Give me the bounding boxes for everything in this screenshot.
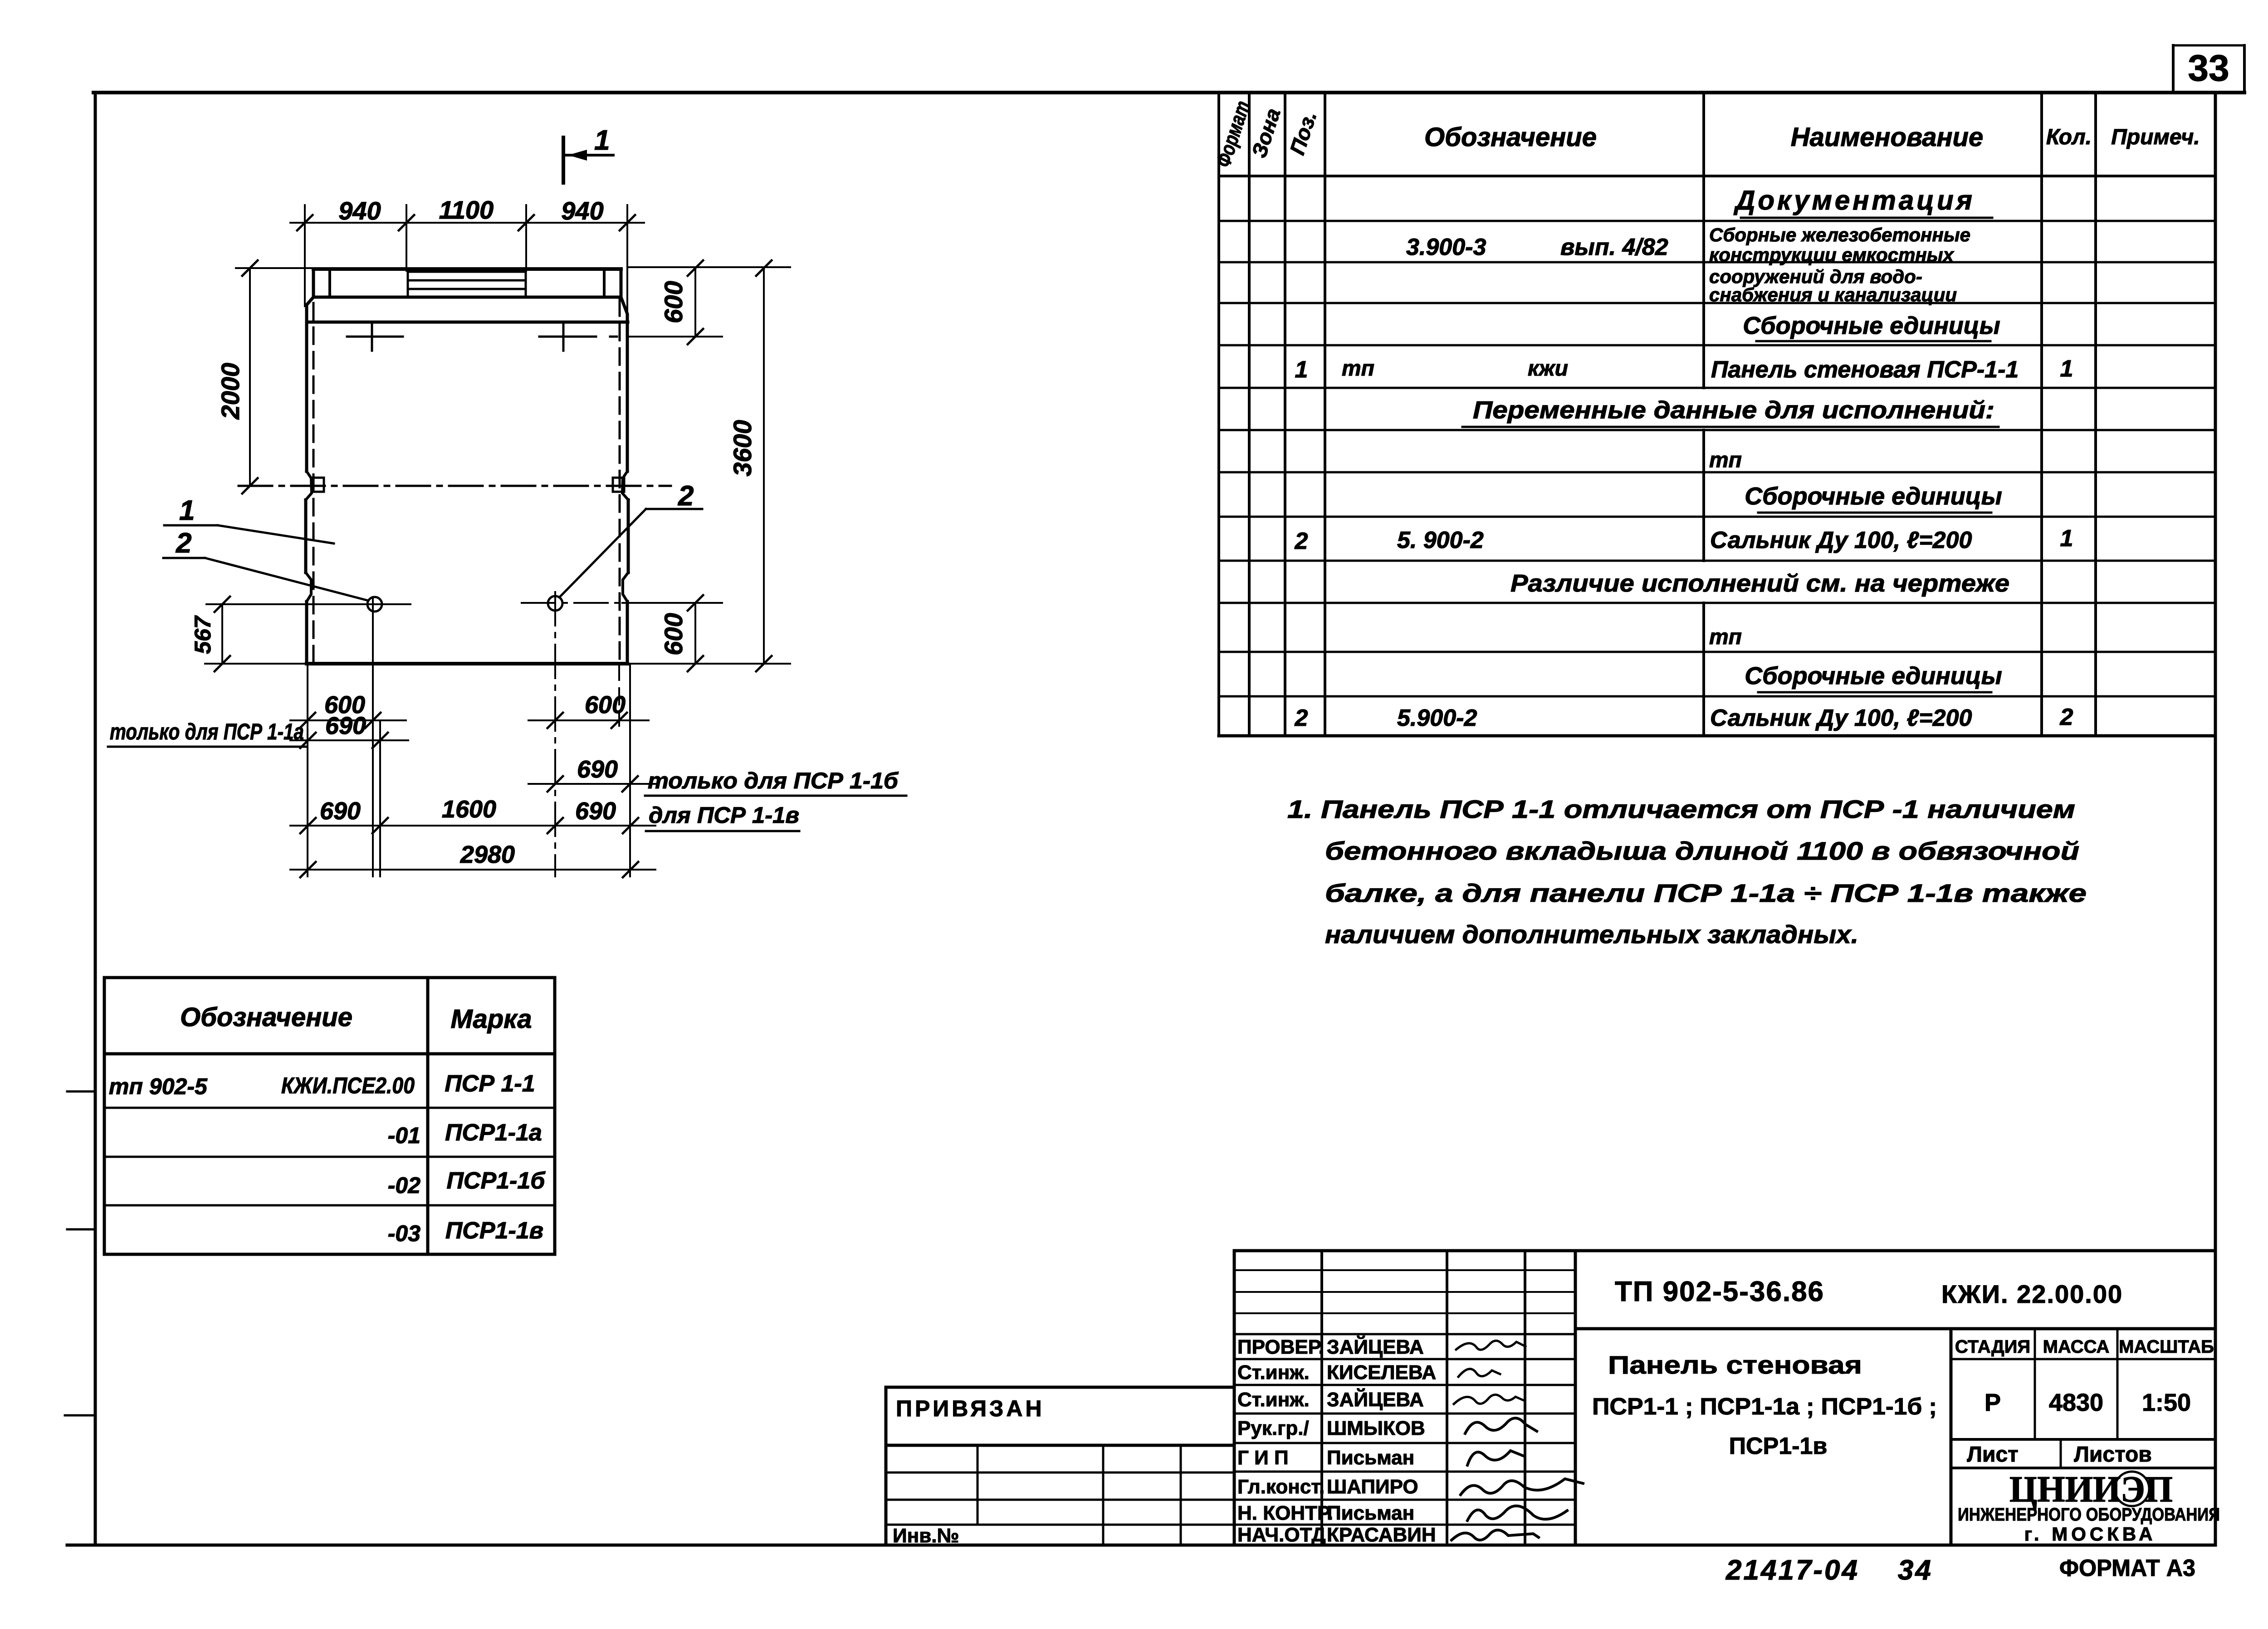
panel right outline mid — [627, 500, 630, 572]
svg-text:Сборочные единицы: Сборочные единицы — [1745, 662, 2002, 690]
panel right jog — [623, 572, 628, 602]
spec table row line 7 — [1219, 471, 2215, 474]
svg-text:вып. 4/82: вып. 4/82 — [1560, 234, 1668, 260]
signature squiggle 1 — [1456, 1340, 1525, 1350]
ext vertical right circle centerline — [554, 592, 556, 876]
svg-text:Сборочные единицы: Сборочные единицы — [1743, 312, 2000, 339]
circle axis left solid part — [206, 603, 411, 605]
svg-text:Инв.№: Инв.№ — [893, 1525, 959, 1547]
panel top edge — [313, 267, 621, 271]
section mark vertical — [562, 137, 565, 183]
svg-text:5.900-2: 5.900-2 — [1397, 705, 1477, 731]
spec table header bottom line — [1219, 175, 2215, 177]
spec row Dokumentacija underline — [1741, 217, 1992, 219]
dim 3600 ext bottom — [630, 663, 790, 665]
svg-text:Документация: Документация — [1733, 185, 1975, 215]
titleblock sig row 7 — [1234, 1499, 1575, 1501]
svg-text:Н. КОНТР.: Н. КОНТР. — [1237, 1502, 1333, 1524]
panel left outline mid — [304, 500, 308, 572]
panel horizontal centerline (dash-dot) — [239, 485, 671, 487]
svg-text:тп: тп — [1709, 625, 1742, 649]
titleblock v-line title area — [1574, 1251, 1577, 1545]
dim 600 lowerright vertical — [694, 603, 696, 664]
svg-text:балке, а для панели ПСР 1-1: балке, а для панели ПСР 1-1а ÷ ПСР 1-1в … — [1325, 879, 2087, 907]
svg-text:кжи: кжи — [1528, 357, 1568, 381]
dim 3600 vertical — [763, 268, 765, 664]
dim 600 top tick upper — [688, 260, 703, 276]
privyazan grid col 3 — [1180, 1445, 1182, 1545]
titleblock small row 3 — [1234, 1312, 1575, 1314]
page frame left border — [94, 93, 97, 1545]
dim 2000 ext top — [236, 267, 312, 269]
privyazan grid row 4 — [886, 1524, 1234, 1526]
titleblock small row 2 — [1234, 1291, 1575, 1293]
svg-text:ПСР1-1в: ПСР1-1в — [445, 1218, 543, 1244]
panel beam bottom line — [307, 321, 628, 324]
dim row5 line — [290, 869, 655, 871]
svg-text:690: 690 — [577, 756, 618, 783]
titleblock doc number row bottom — [1575, 1327, 2215, 1331]
panel left jog — [306, 572, 311, 602]
dim 567 ext bottom — [205, 663, 307, 665]
svg-text:1: 1 — [179, 495, 195, 526]
svg-text:тп: тп — [1342, 357, 1374, 381]
privyazan row bottom — [886, 1444, 1234, 1447]
titleblock stadia header bottom — [1951, 1358, 2215, 1360]
svg-text:Поз.: Поз. — [1285, 108, 1321, 158]
row5 tick b — [623, 862, 638, 877]
gland hole circle right — [548, 596, 562, 611]
marks table row line 3 — [104, 1204, 555, 1207]
concrete insert lamination line 3 — [408, 288, 526, 290]
row4 tick b — [372, 818, 388, 833]
spec table row line 4 — [1219, 344, 2215, 347]
row3 label underline — [645, 795, 906, 797]
svg-text:ПСР1-1а: ПСР1-1а — [445, 1120, 542, 1146]
svg-text:ПРОВЕР.: ПРОВЕР. — [1237, 1336, 1324, 1358]
svg-text:1. Панель ПСР 1-1 отличаетс: 1. Панель ПСР 1-1 отличается от ПСР -1 н… — [1287, 795, 2075, 823]
ext vertical right inner dashed below — [618, 664, 620, 726]
svg-text:1100: 1100 — [439, 196, 494, 224]
signature squiggle 6 — [1461, 1479, 1583, 1495]
signature squiggle 5 — [1467, 1451, 1524, 1465]
panel end block left vertical — [328, 269, 331, 297]
spec table bottom line — [1219, 734, 2215, 738]
titleblock v-line stadia/massa — [2034, 1329, 2036, 1439]
logo circle around E — [2115, 1472, 2149, 1506]
svg-text:ПСР 1-1: ПСР 1-1 — [445, 1071, 535, 1097]
dim 600 top ext lower — [628, 336, 722, 338]
svg-text:-03: -03 — [388, 1221, 420, 1246]
svg-text:МАССА: МАССА — [2043, 1337, 2110, 1357]
titleblock sig row 6 — [1234, 1471, 1575, 1473]
privyazan grid row 2 — [886, 1472, 1234, 1474]
dim 600 lowerright tick top — [688, 595, 703, 611]
ext vertical left edge below — [307, 664, 308, 876]
svg-text:Зона: Зона — [1247, 105, 1285, 161]
circle axis right dashdot — [522, 602, 619, 604]
dim 600 top tick lower — [688, 329, 703, 344]
svg-text:2980: 2980 — [460, 841, 515, 868]
svg-text:Р: Р — [1984, 1389, 2001, 1416]
svg-text:Письман: Письман — [1327, 1502, 1414, 1524]
page number box left line — [2172, 45, 2175, 93]
page frame bottom border — [67, 1544, 2215, 1547]
panel bottom edge — [307, 662, 627, 665]
spec row sborochnye edinicy 1 underline — [1756, 340, 1990, 342]
dim 567 tick bottom — [215, 656, 230, 671]
row3 tick b — [622, 776, 638, 792]
gland hole circle left — [367, 597, 382, 611]
dim 600 top vertical — [694, 268, 696, 337]
row2 tick a — [300, 733, 316, 748]
row4 label underline — [646, 830, 799, 832]
dim row1 line right — [528, 719, 649, 721]
embed square right — [613, 478, 624, 492]
titleblock top line — [1234, 1249, 2215, 1252]
signature squiggle 7 — [1467, 1506, 1567, 1521]
spec table left edge — [1217, 93, 1220, 736]
svg-text:1: 1 — [2060, 356, 2073, 382]
marks table outer box — [104, 978, 555, 1254]
top dim ext 3 — [525, 205, 527, 271]
svg-text:Листов: Листов — [2074, 1443, 2152, 1467]
titleblock sig row 5 — [1234, 1442, 1575, 1444]
spec table col line kol/primech — [2094, 93, 2097, 736]
titleblock list band bottom — [1951, 1467, 2215, 1469]
titleblock sig row 8 — [1234, 1524, 1575, 1526]
signature squiggle 8 — [1452, 1530, 1539, 1540]
callout 2 right leader — [560, 509, 646, 597]
dim row4 line — [290, 825, 655, 827]
svg-text:НАЧ.ОТД: НАЧ.ОТД — [1237, 1524, 1326, 1546]
svg-text:г. МОСКВА: г. МОСКВА — [2024, 1523, 2156, 1545]
spec table col line naimenovanie/kol — [2040, 93, 2043, 736]
lifting mark right dash — [610, 336, 617, 338]
svg-text:Панель стеновая ПСР-1-1: Панель стеновая ПСР-1-1 — [1711, 357, 2019, 383]
privyazan grid col 2 — [1102, 1445, 1105, 1545]
svg-text:3600: 3600 — [728, 420, 757, 477]
spec row sborochnye edinicy 3 underline — [1758, 691, 1991, 694]
svg-text:600: 600 — [585, 691, 626, 719]
titleblock list band top — [1951, 1438, 2215, 1441]
spec table col line oboznachenie/naimenovanie mid — [1702, 430, 1705, 561]
svg-text:КЖИ.ПСЕ2.00: КЖИ.ПСЕ2.00 — [281, 1073, 415, 1098]
svg-text:600: 600 — [659, 613, 688, 655]
panel left notch — [306, 471, 312, 500]
dim row3 line — [528, 783, 655, 785]
svg-text:только для ПСР 1-1б: только для ПСР 1-1б — [648, 768, 899, 793]
dim 3600 tick bottom — [756, 656, 772, 671]
concrete insert lamination line 2 — [408, 279, 526, 282]
dim 2000 tick bottom — [242, 478, 258, 494]
svg-text:2: 2 — [2060, 704, 2073, 730]
svg-text:33: 33 — [2188, 48, 2229, 89]
svg-text:тп 902-5: тп 902-5 — [109, 1074, 208, 1099]
fold mark tick 3 — [65, 1414, 94, 1417]
spec table row line 1 — [1219, 220, 2215, 222]
svg-text:Ст.инж.: Ст.инж. — [1237, 1361, 1310, 1384]
dim row1 line left — [290, 719, 406, 721]
row1 tick c — [547, 713, 563, 728]
dim 600 lowerright tick bottom — [688, 656, 703, 671]
svg-text:1600: 1600 — [442, 796, 496, 823]
svg-text:Переменные данные для испол: Переменные данные для исполнений: — [1473, 396, 1994, 424]
callout 2 right horizontal — [646, 508, 702, 510]
svg-text:1: 1 — [1295, 357, 1308, 383]
dim 567 tick top — [215, 597, 230, 612]
marks table row line 2 — [104, 1156, 555, 1158]
dim 600 lowerright ext bottom — [630, 663, 722, 665]
svg-text:2: 2 — [1295, 528, 1308, 554]
spec row sborochnye edinicy 2 underline — [1758, 512, 1991, 514]
svg-text:КЖИ. 22.00.00: КЖИ. 22.00.00 — [1941, 1280, 2123, 1308]
svg-text:5. 900-2: 5. 900-2 — [1397, 527, 1484, 553]
svg-text:Рук.гр./: Рук.гр./ — [1237, 1417, 1309, 1439]
titleblock left edge — [1233, 1251, 1236, 1545]
lifting mark left vertical — [371, 324, 373, 351]
svg-text:ТП 902-5-36.86: ТП 902-5-36.86 — [1615, 1276, 1824, 1307]
svg-text:Панель стеновая: Панель стеновая — [1608, 1350, 1862, 1379]
svg-text:Кол.: Кол. — [2046, 125, 2092, 149]
hidden inner face left (dashed) — [313, 303, 315, 661]
spec table col line zona/poz — [1284, 93, 1286, 736]
svg-text:Г И П: Г И П — [1237, 1447, 1289, 1469]
section mark horizontal — [563, 154, 613, 157]
svg-text:КИСЕЛЕВА: КИСЕЛЕВА — [1327, 1361, 1436, 1384]
row4 tick d — [623, 818, 638, 833]
titleblock small row 1 — [1234, 1269, 1575, 1271]
spec table row line 6 — [1219, 429, 2215, 431]
svg-text:снабжения и канализации: снабжения и канализации — [1709, 284, 1957, 305]
svg-text:-01: -01 — [388, 1123, 420, 1148]
titleblock v-line stadia area — [1950, 1329, 1953, 1545]
svg-text:600: 600 — [659, 281, 688, 323]
top dim ext 4 — [626, 205, 628, 314]
dim600 lower ext top — [622, 602, 722, 604]
svg-text:ИНЖЕНЕРНОГО ОБОРУДОВАНИЯ: ИНЖЕНЕРНОГО ОБОРУДОВАНИЯ — [1958, 1505, 2220, 1525]
ext vertical right edge below — [629, 664, 631, 876]
dim row2 line — [290, 739, 408, 741]
svg-text:Различие исполнений см. на ч: Различие исполнений см. на чертеже — [1510, 570, 2009, 597]
svg-text:690: 690 — [325, 712, 366, 739]
row2 tick b — [372, 733, 388, 748]
row1 tick a — [300, 713, 315, 728]
svg-text:Лист: Лист — [1967, 1443, 2018, 1467]
signature squiggle 2 — [1458, 1369, 1500, 1377]
svg-text:Наименование: Наименование — [1791, 122, 1983, 152]
svg-text:Сальник Ду 100, ℓ=200: Сальник Ду 100, ℓ=200 — [1710, 705, 1972, 731]
svg-text:бетонного вкладыша длиной 1: бетонного вкладыша длиной 1100 в обвязоч… — [1325, 837, 2079, 865]
panel left outline upper — [307, 269, 313, 471]
svg-text:наличием дополнительных закл: наличием дополнительных закладных. — [1325, 920, 1858, 949]
spec table row line 3 — [1219, 302, 2215, 304]
marks table column line — [426, 978, 430, 1254]
top dim tick 3 — [518, 215, 534, 230]
spec table row line 9 — [1219, 560, 2215, 562]
spec table row line 12 — [1219, 695, 2215, 698]
top dim tick 4 — [620, 215, 635, 230]
svg-text:Обозначение: Обозначение — [180, 1003, 352, 1032]
titleblock v-line massa/masshtab — [2116, 1329, 2119, 1439]
page frame top border — [93, 91, 2244, 94]
row4 tick a — [300, 818, 316, 833]
row5 tick a — [300, 862, 316, 877]
svg-text:Обозначение: Обозначение — [1424, 122, 1597, 152]
spec table col line format/zona — [1248, 93, 1251, 736]
hidden inner face right (dashed) — [619, 299, 621, 661]
row1 tick d — [611, 713, 627, 728]
top dim ext 1 — [304, 205, 306, 306]
svg-text:1: 1 — [2060, 525, 2073, 552]
spec table row line 2 — [1219, 261, 2215, 264]
panel left outline lower — [305, 602, 308, 664]
titleblock v-line date — [1524, 1251, 1526, 1545]
svg-text:Сборные железобетонные: Сборные железобетонные — [1709, 224, 1970, 245]
svg-text:2000: 2000 — [216, 363, 244, 420]
spec table col line oboznachenie/naimenovanie upper — [1702, 93, 1705, 388]
dim 2000 line — [249, 268, 251, 486]
svg-text:ШМЫКОВ: ШМЫКОВ — [1327, 1417, 1425, 1439]
page number box top line — [2173, 44, 2244, 47]
fold mark tick 2 — [67, 1228, 94, 1231]
panel right outline lower — [626, 602, 629, 664]
svg-text:Гл.конст.: Гл.конст. — [1237, 1476, 1325, 1498]
signature squiggle 4 — [1465, 1418, 1537, 1433]
svg-text:567: 567 — [190, 615, 215, 654]
row3 tick a — [547, 776, 563, 792]
top dim ext 2 — [406, 205, 407, 271]
marks table header bottom — [104, 1052, 555, 1056]
privyazan grid row 3 — [886, 1499, 1234, 1501]
svg-text:КРАСАВИН: КРАСАВИН — [1327, 1524, 1436, 1546]
titleblock v-line list/listov — [2060, 1439, 2062, 1468]
dim 2000 tick top — [242, 260, 258, 276]
panel right notch — [622, 471, 628, 500]
svg-text:ПСР1-1в: ПСР1-1в — [1729, 1433, 1828, 1459]
titleblock v-line names — [1320, 1251, 1323, 1545]
row2 label underline — [108, 746, 306, 748]
callout 1 left leader — [218, 525, 334, 543]
spec table row line 10 — [1219, 602, 2215, 604]
concrete insert left vertical — [407, 271, 409, 297]
top dim tick 2 — [399, 215, 414, 230]
svg-text:МАСШТАБ: МАСШТАБ — [2119, 1337, 2214, 1357]
dim 3600 tick top — [756, 260, 772, 276]
panel right outline upper — [621, 269, 627, 471]
svg-text:ЗАЙЦЕВА: ЗАЙЦЕВА — [1327, 1335, 1424, 1358]
svg-text:Марка: Марка — [450, 1004, 532, 1034]
lifting mark left horizontal — [347, 336, 403, 338]
svg-text:Сборочные единицы: Сборочные единицы — [1745, 483, 2002, 510]
svg-text:1: 1 — [594, 125, 610, 156]
svg-text:Примеч.: Примеч. — [2111, 125, 2200, 149]
ext vertical through left circle — [372, 597, 374, 876]
marks table row line 1 — [104, 1107, 555, 1109]
svg-text:21417-04 34: 21417-04 34 — [1725, 1555, 1933, 1586]
svg-text:ПРИВЯЗАН: ПРИВЯЗАН — [896, 1396, 1045, 1421]
signature squiggle 3 — [1454, 1394, 1524, 1404]
dim 600 top ext upper — [628, 266, 790, 268]
spec table row line 8 — [1219, 516, 2215, 518]
panel end block right vertical — [603, 269, 606, 297]
svg-text:690: 690 — [320, 797, 361, 825]
row4 tick c — [547, 818, 563, 833]
privyazan box left — [885, 1387, 888, 1545]
spec table row line 5 — [1219, 387, 2215, 389]
spec table col line poz/oboznachenie — [1324, 93, 1326, 736]
titleblock v-line sign — [1446, 1251, 1448, 1545]
svg-text:тп: тп — [1709, 448, 1742, 472]
svg-text:3.900-3: 3.900-3 — [1406, 234, 1486, 260]
svg-text:ЗАЙЦЕВА: ЗАЙЦЕВА — [1327, 1388, 1424, 1411]
privyazan box top — [886, 1386, 1234, 1389]
page number box right line — [2243, 45, 2246, 93]
svg-text:2: 2 — [678, 480, 694, 512]
top dimension line 940-1100-940 — [290, 222, 644, 224]
svg-text:2: 2 — [176, 528, 191, 559]
concrete insert lamination line 1 — [408, 271, 526, 273]
svg-text:только для ПСР 1-1а: только для ПСР 1-1а — [110, 719, 304, 744]
privyazan grid col 1 — [977, 1445, 979, 1525]
svg-text:ФОРМАТ А3: ФОРМАТ А3 — [2059, 1555, 2195, 1581]
svg-text:Сальник Ду 100, ℓ=200: Сальник Ду 100, ℓ=200 — [1710, 527, 1972, 553]
section mark arrow — [568, 150, 587, 161]
lifting mark right horizontal — [539, 336, 596, 338]
svg-text:940: 940 — [338, 196, 381, 225]
top dim tick 1 — [297, 215, 313, 230]
embed square left — [313, 478, 324, 492]
titleblock sig row prover top — [1234, 1333, 1575, 1335]
spec table col line oboznachenie/naimenovanie lower — [1702, 603, 1705, 736]
callout 2 left underline — [163, 557, 205, 559]
callout 1 left underline — [164, 524, 218, 527]
svg-text:ШАПИРО: ШАПИРО — [1327, 1476, 1418, 1498]
svg-text:Ст.инж.: Ст.инж. — [1237, 1389, 1310, 1411]
svg-text:-02: -02 — [388, 1173, 420, 1198]
svg-text:4830: 4830 — [2049, 1389, 2103, 1416]
svg-text:для ПСР 1-1в: для ПСР 1-1в — [649, 802, 799, 828]
titleblock sig row 4 — [1234, 1413, 1575, 1415]
concrete insert right vertical — [525, 271, 527, 297]
panel top strip bottom line — [313, 296, 621, 299]
ext vertical 690 left — [379, 721, 381, 876]
titleblock sig row 3 — [1234, 1384, 1575, 1386]
fold mark tick 1 — [67, 1091, 94, 1093]
spec row peremennye underline — [1462, 426, 1999, 428]
page frame right border — [2214, 93, 2217, 1545]
svg-text:ПСР1-1б: ПСР1-1б — [447, 1168, 546, 1194]
titleblock sig row 2 — [1234, 1358, 1575, 1360]
svg-text:Письман: Письман — [1327, 1447, 1414, 1469]
dim 567 vertical — [221, 604, 223, 664]
svg-text:1:50: 1:50 — [2142, 1389, 2191, 1416]
svg-text:2: 2 — [1295, 705, 1308, 731]
svg-text:940: 940 — [561, 196, 603, 225]
callout 2 left leader — [205, 558, 368, 601]
row1 tick b — [365, 713, 381, 728]
svg-text:ПСР1-1 ; ПСР1-1а ; ПСР1-1б ;: ПСР1-1 ; ПСР1-1а ; ПСР1-1б ; — [1592, 1394, 1937, 1420]
svg-text:690: 690 — [575, 797, 616, 825]
svg-text:СТАДИЯ: СТАДИЯ — [1955, 1337, 2030, 1357]
lifting mark right vertical — [562, 324, 565, 351]
spec table row line 11 — [1219, 651, 2215, 653]
svg-text:конструкции емкостных: конструкции емкостных — [1709, 244, 1955, 265]
